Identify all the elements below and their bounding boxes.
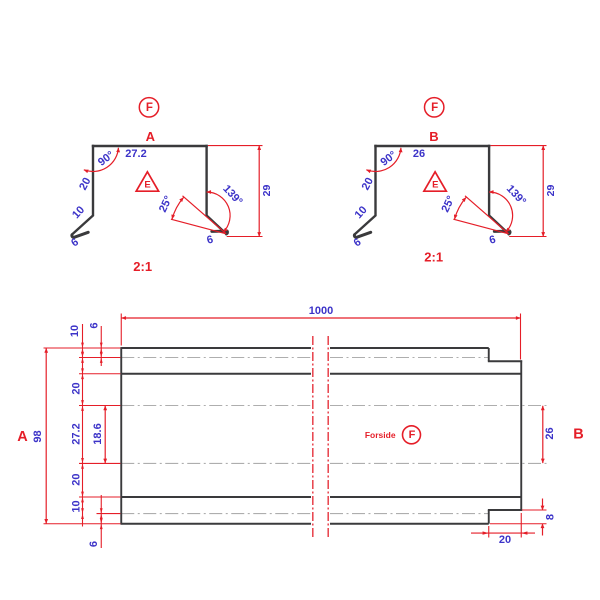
svg-text:10: 10 — [69, 325, 81, 337]
svg-text:26: 26 — [544, 427, 556, 439]
svg-text:26: 26 — [413, 148, 425, 160]
svg-text:Forside: Forside — [365, 430, 396, 440]
svg-text:98: 98 — [32, 430, 44, 442]
svg-text:20: 20 — [70, 382, 82, 394]
svg-text:27.2: 27.2 — [70, 423, 82, 444]
svg-text:29: 29 — [545, 185, 557, 197]
svg-text:A: A — [17, 429, 28, 445]
svg-text:F: F — [146, 102, 153, 114]
svg-text:10: 10 — [71, 500, 83, 512]
svg-text:B: B — [573, 427, 583, 443]
svg-text:20: 20 — [70, 473, 82, 485]
svg-text:B: B — [429, 129, 438, 144]
svg-text:8: 8 — [545, 514, 557, 520]
svg-text:2:1: 2:1 — [424, 249, 443, 264]
svg-text:E: E — [144, 179, 150, 190]
svg-text:27.2: 27.2 — [125, 148, 146, 160]
svg-text:E: E — [432, 179, 438, 190]
svg-text:2:1: 2:1 — [133, 259, 152, 274]
svg-text:29: 29 — [261, 185, 273, 197]
svg-text:18.6: 18.6 — [92, 423, 104, 444]
svg-text:A: A — [146, 129, 156, 144]
svg-text:6: 6 — [88, 541, 100, 547]
svg-text:6: 6 — [88, 322, 100, 328]
svg-text:20: 20 — [499, 534, 511, 546]
svg-text:F: F — [409, 429, 416, 441]
svg-text:1000: 1000 — [309, 305, 333, 317]
svg-text:F: F — [431, 102, 438, 114]
